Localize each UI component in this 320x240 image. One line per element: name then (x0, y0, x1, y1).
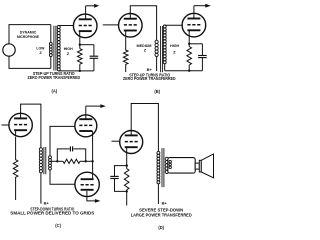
svg-text:(B): (B) (154, 89, 160, 94)
node junction C3 (91, 160, 93, 162)
wire transformer T1 primary top lead (50, 25, 52, 43)
arrow V5 plate output (86, 104, 106, 108)
arrow V6 plate output (95, 199, 101, 203)
wire cap loop right (73, 149, 85, 161)
arrow V3 plate output (194, 4, 211, 8)
wire V3 cathode lead (188, 37, 190, 47)
triode V5 (75, 115, 97, 137)
wire cap loop D (115, 166, 127, 192)
resistor R5 bias (63, 159, 80, 163)
wire V7 grid input stub (112, 140, 120, 142)
transformer T1 primary winding (LOW Z) (49, 42, 52, 56)
speaker LS1 cone (201, 154, 213, 178)
wire R3 to rail (188, 65, 190, 71)
transformer T3 core (44, 147, 46, 174)
triode V6 (75, 172, 99, 196)
wire T2 secondary to V3 grid (165, 24, 182, 26)
triode V3 (182, 13, 206, 37)
svg-text:B+: B+ (44, 200, 50, 205)
wire V4 plate to T3 (21, 104, 41, 148)
wire shared cathode line (92, 134, 94, 179)
dynamic microphone MIC1 (3, 44, 15, 56)
wire V1 plate lead (85, 6, 87, 19)
wire V4 grid input stub (2, 124, 9, 126)
wire V7 plate to T4 (131, 104, 158, 152)
wire bottom rail A (59, 70, 94, 72)
capacitor C1 bypass (90, 45, 99, 71)
svg-text:MICROPHONE: MICROPHONE (17, 34, 39, 39)
resistor R2 cathode V2 (123, 37, 128, 72)
transformer T3 primary winding (39, 148, 42, 173)
arrow V1 plate output (86, 4, 100, 8)
transformer T1 core (54, 26, 56, 71)
wire V6 plate lead (87, 191, 95, 201)
transformer T4 core (162, 148, 164, 187)
node junction A1 (79, 44, 81, 46)
wire T3 secondary top to V5 grid (50, 126, 75, 155)
wire microphone box (A) (9, 25, 51, 69)
speaker LS1 neck (195, 163, 199, 169)
triode V4 (9, 113, 32, 136)
svg-text:ZERO POWER TRANSFERRED: ZERO POWER TRANSFERRED (123, 76, 176, 81)
wire T2 secondary bottom lead (164, 64, 166, 71)
svg-text:B+: B+ (147, 67, 153, 72)
transformer T3 secondary winding (49, 156, 52, 170)
wire T1 secondary to V1 grid (59, 25, 74, 27)
svg-text:ZERO POWER TRANSFERRED: ZERO POWER TRANSFERRED (28, 75, 81, 80)
capacitor C3 (grid bias) (70, 146, 72, 151)
transformer T2 core (161, 26, 163, 72)
svg-text:SMALL POWER DELIVERED TO GRIDS: SMALL POWER DELIVERED TO GRIDS (10, 211, 94, 216)
svg-text:(A): (A) (51, 88, 57, 93)
speaker LS1 box (168, 158, 195, 174)
transformer T2 primary winding (MEDIUM Z) (155, 40, 158, 56)
node junction D1 (126, 164, 128, 166)
svg-text:HIGH: HIGH (170, 43, 179, 48)
capacitor C2 bypass (198, 44, 207, 71)
wire V3 plate lead (193, 6, 195, 19)
resistor R4 cathode V4 (13, 137, 18, 200)
resistor R1 cathode (78, 49, 83, 65)
triode V2 (119, 13, 143, 37)
svg-text:LARGE POWER TRANSFERRED: LARGE POWER TRANSFERRED (131, 212, 192, 217)
transformer T1 secondary winding (HIGH Z) (57, 26, 60, 71)
wire V2 plate to T2 (130, 6, 156, 40)
speaker LS1 cone bar (199, 160, 201, 172)
node junction C2 (85, 160, 87, 162)
wire cap loop left (57, 149, 69, 161)
svg-text:(C): (C) (55, 223, 61, 228)
capacitor C4 bypass (110, 176, 118, 178)
node junction B1 (188, 43, 190, 45)
resistor R3 cathode V3 (187, 47, 192, 66)
wire R6 bottom lead (126, 190, 128, 206)
resistor R6 cathode V7 (124, 169, 129, 190)
wire R5 to cathode line (80, 160, 93, 162)
wire bottom rail B (165, 70, 203, 72)
wire junction to C2 (189, 43, 202, 45)
triode V7 (120, 131, 143, 154)
transformer T2 secondary winding (HIGH Z) (163, 25, 166, 64)
speaker LS1 voice coil (169, 160, 171, 168)
wire V7 cathode lead (126, 153, 128, 169)
node rail junction A2 (79, 70, 81, 72)
wire V5 plate lead (85, 106, 87, 120)
wire T3 primary bottom lead (B+) (40, 173, 42, 204)
wire transformer T1 primary bottom lead (50, 57, 52, 69)
wire T3 center tap (50, 160, 63, 162)
wire V1 cathode lead (79, 37, 81, 48)
transformer T4 primary winding (157, 151, 160, 183)
node center tap junction C1 (56, 160, 58, 162)
transformer T4 secondary winding (165, 157, 168, 173)
wire T4 primary bottom lead (B+) (157, 184, 159, 204)
svg-text:B+: B+ (162, 200, 168, 205)
node rail junction B2 (188, 70, 190, 72)
wire T2 primary bottom lead (156, 57, 158, 72)
node junction D2 (126, 190, 128, 192)
wire junction to C1 (80, 44, 94, 46)
triode V1 (73, 14, 97, 38)
svg-text:(D): (D) (158, 225, 164, 230)
wire V2 grid input stub (103, 24, 119, 26)
wire T3 secondary bottom to V6 grid (50, 170, 75, 184)
wire R1 to rail (79, 64, 81, 71)
